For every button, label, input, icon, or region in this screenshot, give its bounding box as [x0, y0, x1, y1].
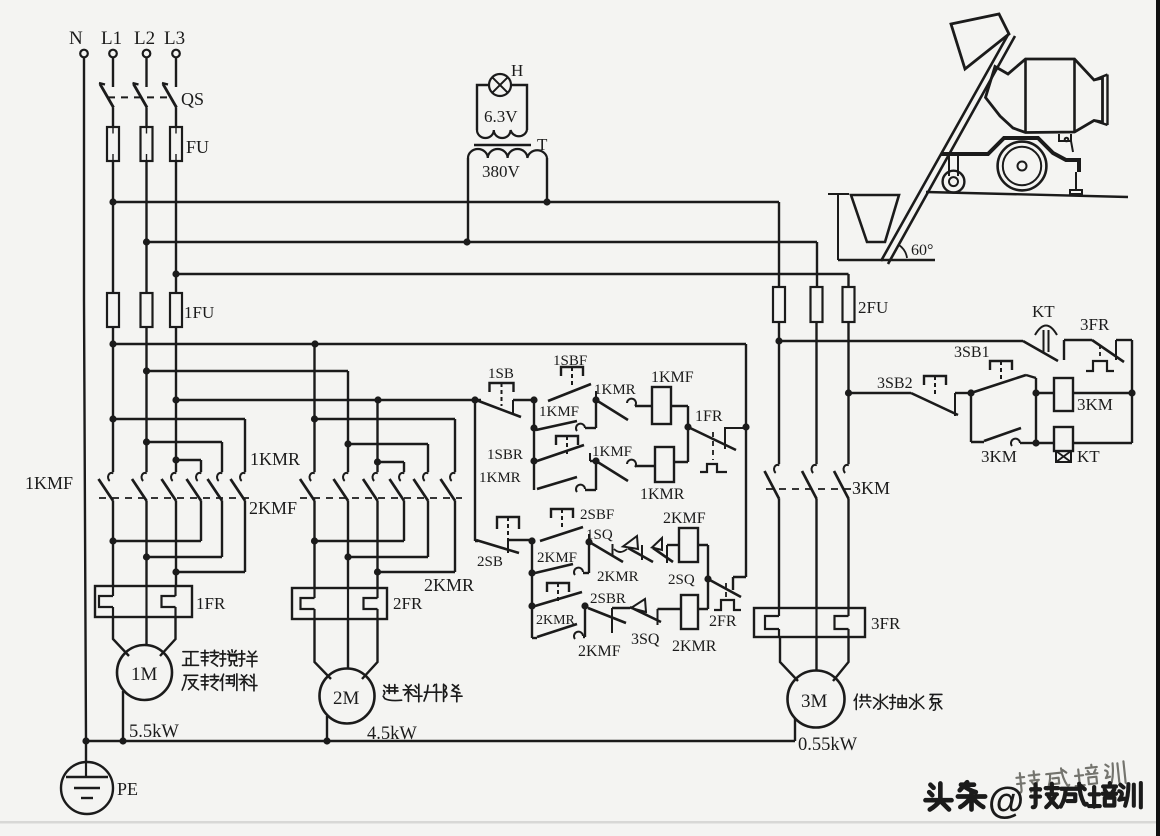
wire L2 to 2KMF pole B [147, 371, 349, 472]
wire L1 phase vertical [112, 161, 114, 472]
contact 1FR thermal (NC) [688, 408, 746, 472]
hopper bottom (skip at ground) [851, 195, 899, 242]
wire motor 1M to earth line [122, 691, 124, 741]
svg-text:1SQ: 1SQ [586, 527, 613, 543]
coil 3KM [1054, 378, 1113, 414]
thermal relay 2FR heater box [292, 588, 423, 619]
node column B1 upper [595, 400, 597, 428]
dimension line [828, 194, 849, 260]
wire 1M phase U merge [113, 501, 201, 586]
label motor 3M function [854, 694, 871, 709]
pushbutton 1SBR (start rev, NO) [487, 436, 596, 463]
svg-text:@: @ [988, 780, 1024, 821]
contactor 3KM main contacts [765, 465, 891, 499]
pushbutton 1SBF (start fwd, NO) [548, 353, 596, 401]
mixer jockey wheel [943, 155, 965, 193]
svg-text:L1: L1 [101, 28, 122, 49]
svg-text:FU: FU [186, 137, 209, 157]
transformer T core and 380V primary [468, 135, 548, 242]
svg-text:1KMF: 1KMF [651, 369, 694, 386]
svg-text:1KMR: 1KMR [594, 382, 636, 398]
wire jumper to 2KMR pole F [315, 419, 456, 472]
svg-text:3FR: 3FR [871, 614, 901, 633]
wire feeds into motor 3M [780, 637, 849, 681]
svg-text:1KMF: 1KMF [539, 404, 579, 420]
wire feed to KT contact [779, 340, 1023, 342]
thermal relay 1FR heater box [95, 586, 226, 617]
node column A2 [531, 541, 533, 638]
svg-text:2SB: 2SB [477, 554, 503, 570]
motor 3M [788, 671, 845, 728]
svg-text:KT: KT [1077, 447, 1100, 466]
node B2 [585, 538, 592, 545]
contact 2FR thermal (NC) [708, 579, 741, 630]
wire jumper to 2KMR pole D [378, 462, 405, 472]
wire earth/neutral bottom line [86, 740, 795, 742]
svg-text:2SBR: 2SBR [590, 591, 626, 607]
svg-text:1KMF: 1KMF [25, 473, 73, 493]
wire L1 feeder to transformer and 2FU [113, 202, 779, 287]
wire 1M phase V merge [147, 501, 223, 586]
terminal L2 [134, 28, 155, 57]
contact 1KMF aux (hold) [536, 404, 596, 431]
contact 3FR thermal (NC) [1064, 315, 1132, 371]
coil 2KMR [672, 595, 717, 655]
svg-text:PE: PE [117, 779, 138, 799]
wire right rail [733, 427, 746, 590]
contact 2KMF interlock (NC) [578, 608, 630, 660]
contactor 2KMF main contacts [249, 473, 462, 518]
contact 3KM aux (hold) [981, 428, 1036, 466]
svg-text:1SBR: 1SBR [487, 447, 523, 463]
wire right rail 3KM circuit [1073, 340, 1132, 443]
wire feed to 3SB2 [849, 392, 912, 394]
svg-text:1M: 1M [131, 664, 158, 685]
fuse 1FU (3x) [107, 293, 214, 327]
svg-text:1FR: 1FR [196, 594, 226, 613]
wire 1M phase W merge [176, 501, 245, 586]
svg-text:L3: L3 [164, 28, 185, 49]
wire feed to circuit 2 [475, 400, 478, 541]
wire 2M phase V merge [348, 501, 428, 588]
node column 3KM [971, 393, 984, 442]
svg-text:2FR: 2FR [709, 613, 737, 630]
svg-text:3KM: 3KM [1077, 395, 1113, 414]
contact 2KMR aux (hold) [532, 606, 585, 639]
label motor 2M function [383, 685, 401, 701]
svg-text:3KM: 3KM [852, 478, 890, 498]
contactor 1KMR main contacts [187, 449, 301, 501]
svg-text:H: H [511, 61, 523, 80]
svg-text:2KMR: 2KMR [424, 575, 474, 595]
wire feeds into motor 2M [315, 619, 378, 679]
fuse FU (3x) [107, 127, 209, 161]
svg-text:2KMF: 2KMF [249, 498, 297, 518]
svg-text:2KMF: 2KMF [663, 510, 706, 527]
wire L3 feeder to 2FU [176, 274, 849, 287]
coil 1KMF [651, 369, 694, 424]
wire feeds into motor 1M [113, 617, 176, 656]
svg-text:N: N [69, 28, 83, 49]
contactor 2KMR main contacts [390, 473, 475, 595]
svg-text:2SQ: 2SQ [668, 572, 695, 588]
svg-text:1SBF: 1SBF [553, 353, 587, 369]
wire 2FU to 3KM poles [779, 322, 849, 464]
svg-text:2KMR: 2KMR [672, 638, 717, 655]
node column A1 [533, 400, 535, 490]
wire L2 jumper to 1KMR pole E [147, 442, 223, 472]
pushbutton 1SB (stop, NC) [476, 366, 534, 417]
svg-text:380V: 380V [482, 162, 521, 181]
contact 2KMR interlock (NC) [597, 545, 653, 585]
mixer drum [986, 59, 1108, 133]
svg-text:2FR: 2FR [393, 594, 423, 613]
pushbutton 2SBR (down, NO) [535, 583, 626, 607]
mixer lower ground [838, 259, 935, 261]
svg-text:2SBF: 2SBF [580, 507, 614, 523]
svg-text:2KMF: 2KMF [537, 550, 577, 566]
svg-text:1FU: 1FU [184, 303, 214, 322]
contact 2KMF aux (hold) [535, 550, 589, 575]
fuse 2FU (3x) [773, 287, 888, 322]
svg-text:3KM: 3KM [981, 447, 1017, 466]
lamp H with 6.3V secondary loop [477, 61, 527, 138]
coil 1KMR [640, 447, 685, 503]
motor 2M [320, 669, 375, 724]
wire N neutral down to earth [84, 58, 86, 762]
contact 1KMF interlock (NC) [592, 444, 655, 481]
watermark ghost [1016, 761, 1126, 794]
svg-text:6.3V: 6.3V [484, 107, 518, 126]
svg-text:KT: KT [1032, 302, 1055, 321]
wire jumper to 2KMR pole E [348, 444, 428, 472]
svg-text:2M: 2M [333, 688, 360, 709]
terminal N [69, 28, 88, 57]
coil 2KMF [663, 510, 706, 562]
wire L3 phase vertical [175, 161, 177, 472]
svg-text:3SB2: 3SB2 [877, 375, 913, 392]
mixer rail (inclined track) [881, 33, 1015, 264]
wire 2M phase W merge [378, 501, 456, 588]
svg-text:3FR: 3FR [1080, 315, 1110, 334]
wire L2 feeder to 2FU [147, 242, 818, 287]
svg-text:1FR: 1FR [695, 408, 723, 425]
svg-text:1KMF: 1KMF [592, 444, 632, 460]
svg-text:3SB1: 3SB1 [954, 344, 990, 361]
wire L3 jumper to 1KMR pole D [176, 460, 201, 472]
limit switch 2SQ (NC) [652, 538, 695, 588]
svg-text:1SB: 1SB [488, 366, 514, 382]
svg-text:3SQ: 3SQ [631, 631, 660, 648]
coil KT (time relay) [1054, 427, 1100, 466]
thermal relay 3FR heater box [754, 608, 901, 637]
svg-text:1KMR: 1KMR [640, 486, 685, 503]
svg-text:2FU: 2FU [858, 298, 888, 317]
mixer chassis frame [941, 134, 1082, 194]
pushbutton 3SB1 (start, NO) [954, 344, 1026, 392]
wire motor 2M to earth line [326, 716, 328, 741]
hopper top (skip raised) [951, 14, 1009, 69]
svg-text:2KMR: 2KMR [536, 613, 576, 628]
svg-text:2KMR: 2KMR [597, 569, 639, 585]
node column B2 vertical [588, 542, 590, 573]
svg-text:1KMR: 1KMR [250, 449, 300, 469]
svg-text:0.55kW: 0.55kW [798, 735, 858, 755]
contactor 1KMF main contacts [25, 473, 252, 501]
watermark text [925, 780, 1140, 821]
terminal L3 [164, 28, 185, 57]
wire L2 phase vertical [145, 161, 147, 472]
contact 1KMR interlock (NC) [594, 382, 652, 420]
wire coil 1KMF to 1FR node [671, 406, 688, 462]
label motor 1M function [182, 650, 257, 691]
wire L1 jumper to 1KMR pole F [113, 419, 245, 472]
mixer big wheel [998, 142, 1047, 191]
wire control feed from L1 (y=344) to right rail [113, 344, 746, 427]
contact 1KMR aux (hold) [479, 470, 596, 492]
pushbutton 2SBF (up, NO) [540, 507, 614, 541]
pushbutton 2SB (stop, NC) [476, 517, 532, 570]
ground PE symbol [61, 762, 138, 814]
switch QS (3-pole knife switch) [99, 58, 204, 128]
node B2b [581, 602, 588, 609]
terminal L1 [101, 28, 122, 57]
wire coil 2KMF to node [698, 545, 708, 609]
wire to 2KMF pole C [376, 400, 378, 472]
wire coil 3KM right [1073, 392, 1132, 394]
contact KT time-delay (NC delayed) [1023, 302, 1058, 361]
svg-text:5.5kW: 5.5kW [129, 722, 179, 742]
mixer ground line [926, 192, 1128, 197]
node column B1 lower [595, 461, 597, 490]
motor 1M [117, 645, 172, 700]
angle arc 60 [899, 245, 907, 258]
wire 2M phase U merge [315, 501, 405, 588]
wire L3 control feed (y=400) [176, 399, 481, 401]
svg-text:1KMR: 1KMR [479, 470, 521, 486]
limit switch 1SQ (NC) [586, 527, 638, 562]
svg-text:L2: L2 [134, 28, 155, 49]
limit switch 3SQ (NC) [630, 599, 681, 648]
wire 3KM to 3FR [779, 499, 849, 608]
svg-text:QS: QS [181, 89, 204, 109]
pushbutton 3SB2 (stop, NC) [877, 375, 971, 416]
wire motor 3M to earth line [794, 718, 796, 741]
svg-text:3M: 3M [801, 691, 828, 712]
svg-text:2KMF: 2KMF [578, 643, 621, 660]
node column C3 [1026, 375, 1054, 443]
svg-text:60°: 60° [911, 242, 933, 259]
wire to 2KMF pole A from control feed [313, 344, 315, 472]
wire KT coil leads [1036, 442, 1054, 444]
